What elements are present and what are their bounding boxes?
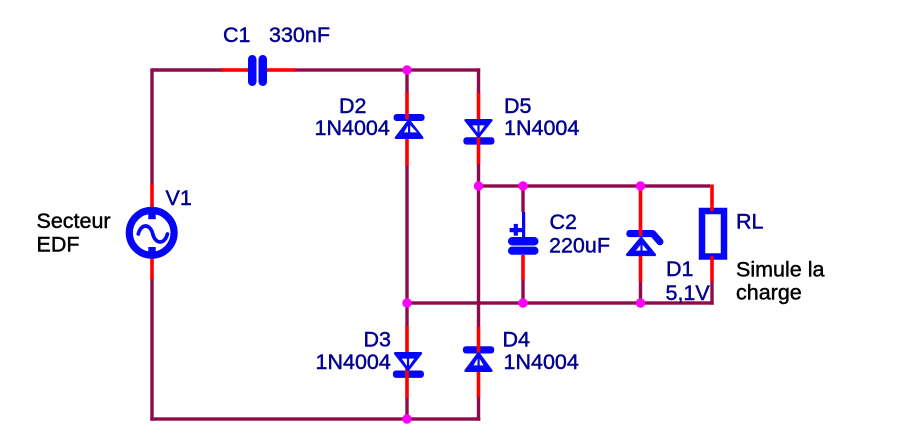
- wire D5 branch upper corner: [477, 68, 480, 95]
- label D4: [503, 327, 531, 351]
- wire mid rail to D3: [405, 303, 408, 327]
- pin red C2 bottom: [521, 255, 525, 280]
- value 1N4004 (D3): [316, 350, 391, 374]
- label D5: [504, 94, 532, 118]
- pin red V1 top: [150, 184, 154, 209]
- svg-text:charge: charge: [736, 281, 802, 305]
- svg-text:5,1V: 5,1V: [666, 281, 711, 305]
- pin red C1 left: [221, 68, 248, 72]
- svg-text:D2: D2: [339, 94, 366, 118]
- diode D2: [394, 92, 425, 166]
- svg-text:Secteur: Secteur: [37, 209, 111, 233]
- svg-text:EDF: EDF: [37, 233, 80, 257]
- svg-text:220uF: 220uF: [549, 233, 610, 257]
- capacitor C1: [248, 55, 267, 86]
- wire RL right riser lower: [710, 282, 713, 305]
- label D2: [339, 94, 366, 118]
- value 220uF: [549, 233, 610, 257]
- wire mid-bottom rail horizontal: [405, 301, 713, 304]
- wire top rail right of C1: [294, 68, 480, 71]
- wire D5 bottom to mid-top rail: [477, 163, 480, 186]
- diode D3: [393, 326, 424, 398]
- svg-text:1N4004: 1N4004: [504, 350, 579, 374]
- node junction mid-top rail at D5: [474, 181, 483, 190]
- ac source V1: [129, 210, 174, 255]
- node junction mid-bottom rail at C2: [518, 298, 527, 307]
- wire D2 to mid rail: [405, 166, 408, 303]
- node junction mid-top rail at D1: [636, 181, 645, 190]
- diode D4: [463, 327, 494, 397]
- wire D3 bottom stub: [405, 397, 408, 419]
- svg-text:D5: D5: [504, 94, 532, 118]
- node junction mid-bottom rail at D2/D3: [402, 298, 411, 307]
- node junction bottom rail at D3: [402, 414, 411, 423]
- svg-text:Simule la: Simule la: [736, 258, 824, 282]
- node junction mid-bottom rail at D1: [636, 298, 645, 307]
- node junction top rail at D2: [402, 65, 411, 74]
- pin red V1 bottom: [150, 257, 154, 280]
- svg-text:1N4004: 1N4004: [315, 116, 390, 140]
- wire mid-top rail horizontal: [479, 184, 711, 187]
- wire D1 bottom stub: [639, 281, 642, 303]
- diode D5: [463, 93, 494, 164]
- capacitor C2: [508, 212, 539, 255]
- wire D4 branch bottom riser: [477, 396, 480, 421]
- svg-text:RL: RL: [736, 209, 764, 233]
- pin red C1 right: [267, 68, 296, 72]
- label Simule la charge: [736, 258, 824, 305]
- svg-text:C2: C2: [550, 210, 577, 234]
- wire bottom rail: [150, 417, 480, 420]
- value 1N4004 (D4): [504, 350, 579, 374]
- svg-text:1N4004: 1N4004: [316, 350, 391, 374]
- wire mid-top rail crossing down to D4: [477, 186, 480, 328]
- value 5,1V: [666, 281, 711, 305]
- value 330nF: [269, 23, 330, 47]
- label V1: [166, 186, 192, 210]
- wire left rail upper: [150, 68, 153, 185]
- svg-text:1N4004: 1N4004: [504, 116, 579, 140]
- value 1N4004 (D5): [504, 116, 579, 140]
- label C2: [550, 210, 577, 234]
- value 1N4004 (D2): [315, 116, 390, 140]
- wire top rail left of C1: [152, 68, 223, 71]
- resistor RL: [702, 184, 724, 281]
- svg-text:330nF: 330nF: [269, 23, 330, 47]
- wire left rail lower: [150, 278, 153, 421]
- node junction mid-top rail at C2: [518, 181, 527, 190]
- svg-text:D1: D1: [666, 257, 693, 281]
- label Secteur EDF: [37, 209, 111, 257]
- svg-text:V1: V1: [166, 186, 192, 210]
- wire C2 bottom stub: [521, 279, 524, 303]
- svg-text:C1: C1: [223, 23, 250, 47]
- label RL: [736, 209, 764, 233]
- label D1: [666, 257, 693, 281]
- wire C2 top stub: [521, 186, 524, 212]
- svg-text:D3: D3: [364, 327, 392, 351]
- label D3: [364, 327, 392, 351]
- wire D2 branch upper: [405, 70, 408, 93]
- label C1: [223, 23, 250, 47]
- zener diode D1: [626, 186, 660, 282]
- svg-text:D4: D4: [503, 327, 531, 351]
